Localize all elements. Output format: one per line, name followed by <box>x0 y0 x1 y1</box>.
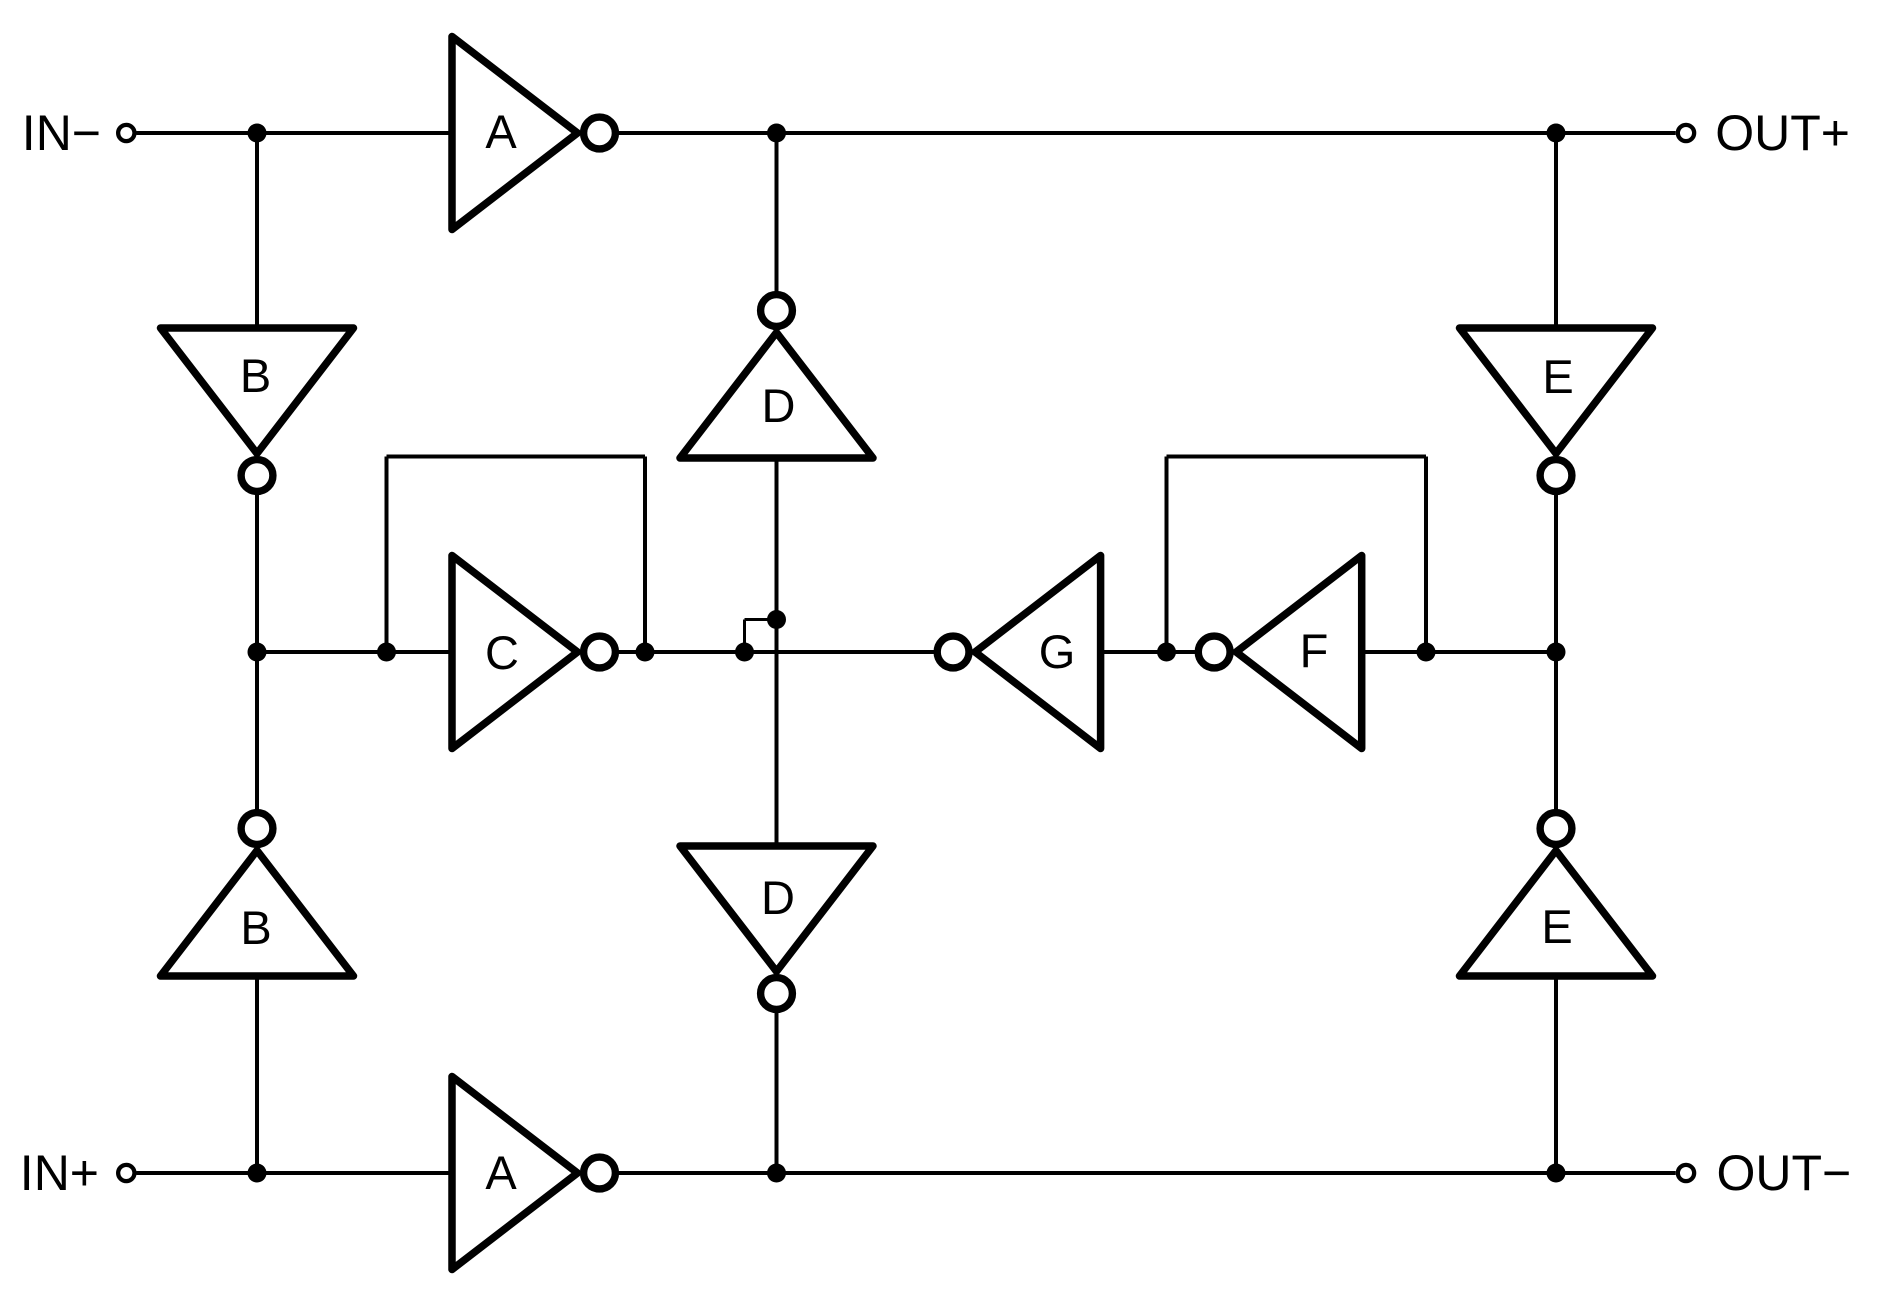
wire F feedback top horizontal <box>1167 455 1427 459</box>
wire C feedback top horizontal <box>387 455 646 459</box>
junction top net / right rail <box>1547 124 1566 143</box>
wire middle net C output to G bubble <box>618 650 938 654</box>
inverter B1 (upper left) bubble <box>241 460 273 492</box>
wire middle net left rail to C input <box>257 650 452 654</box>
svg-text:G: G <box>1039 625 1076 678</box>
junction bottom net / right rail <box>1547 1164 1566 1183</box>
inverter A1 (top) bubble <box>584 117 616 149</box>
inverter D1 (upper middle) bubble <box>761 295 793 327</box>
wire jog vertical from middle net <box>743 620 746 653</box>
wire bottom net A output to OUT- <box>618 1171 1676 1175</box>
inverter A2 (bottom) triangle <box>452 1077 578 1270</box>
svg-text:OUT+: OUT+ <box>1715 105 1850 161</box>
inverter G bubble <box>937 636 969 668</box>
wire middle net F output to right rail <box>1362 650 1556 654</box>
terminal IN+ <box>118 1165 134 1181</box>
svg-text:E: E <box>1541 900 1572 953</box>
svg-text:IN−: IN− <box>22 105 101 161</box>
wire left rail lower B output to bottom net <box>255 974 259 1173</box>
wire jog horizontal to middle rail <box>745 618 777 621</box>
inverter F bubble <box>1198 636 1230 668</box>
inverter E1 (upper right) bubble <box>1540 460 1572 492</box>
junction middle net / left rail <box>248 643 267 662</box>
junction bottom net / middle rail <box>767 1164 786 1183</box>
wire C feedback right vertical <box>643 457 647 653</box>
junction jog on middle net <box>735 643 754 662</box>
junction F feedback input <box>1157 643 1176 662</box>
inverter B1 (upper left) triangle <box>161 328 354 454</box>
wire F feedback right vertical <box>1424 457 1428 653</box>
inverter A2 (bottom) bubble <box>584 1157 616 1189</box>
wire F feedback left vertical <box>1165 457 1169 653</box>
inverter D2 (lower middle) triangle <box>680 846 873 972</box>
wire left rail B output to middle net <box>255 493 259 652</box>
wire top net IN- to A input <box>137 131 453 135</box>
wire middle rail top net to D bubble <box>775 133 779 292</box>
junction top net / left rail <box>248 124 267 143</box>
svg-text:A: A <box>485 1146 517 1199</box>
junction C feedback output <box>636 643 655 662</box>
junction middle net / right rail <box>1547 643 1566 662</box>
wire bottom net IN+ to A input <box>137 1171 453 1175</box>
svg-text:B: B <box>240 901 271 954</box>
svg-text:D: D <box>761 871 795 924</box>
inverter E2 (lower right) bubble <box>1540 813 1572 845</box>
wire right rail top segment <box>1554 133 1558 330</box>
wire top net A output to OUT+ <box>618 131 1676 135</box>
junction top net / middle rail <box>767 124 786 143</box>
terminal OUT- <box>1678 1165 1694 1181</box>
terminal OUT+ <box>1678 125 1694 141</box>
junction F feedback output <box>1417 643 1436 662</box>
svg-text:IN+: IN+ <box>20 1145 99 1201</box>
wire middle rail D input down to lower D <box>775 456 779 848</box>
svg-text:C: C <box>485 626 519 679</box>
junction bottom net / left rail <box>248 1164 267 1183</box>
wire left rail top segment <box>255 133 259 330</box>
svg-text:A: A <box>485 105 517 158</box>
svg-text:E: E <box>1542 350 1573 403</box>
inverter D2 (lower middle) bubble <box>761 978 793 1010</box>
svg-text:F: F <box>1300 624 1329 677</box>
inverter D1 (upper middle) triangle <box>680 333 873 459</box>
junction C feedback input <box>377 643 396 662</box>
inverter C bubble <box>584 636 616 668</box>
inverter E2 (lower right) triangle <box>1460 851 1653 977</box>
inverter F triangle <box>1236 556 1362 749</box>
terminal IN- <box>118 125 134 141</box>
wire middle rail lower D bubble to bottom net <box>775 1013 779 1173</box>
inverter A1 (top) triangle <box>452 37 578 230</box>
svg-text:OUT−: OUT− <box>1717 1145 1852 1201</box>
svg-text:D: D <box>762 379 796 432</box>
inverter G triangle <box>975 556 1101 749</box>
wire left rail middle net to lower B bubble <box>255 652 259 811</box>
wire C feedback left vertical <box>385 457 389 653</box>
inverter C triangle <box>452 556 578 749</box>
inverter E1 (upper right) triangle <box>1460 328 1653 454</box>
wire right rail E output to middle net <box>1554 493 1558 652</box>
wire right rail middle net to lower E bubble <box>1554 652 1558 811</box>
inverter B2 (lower left) triangle <box>161 851 354 977</box>
wire middle net G output to F bubble <box>1101 650 1196 654</box>
inverter B2 (lower left) bubble <box>241 813 273 845</box>
svg-text:B: B <box>240 349 271 402</box>
junction jog on middle rail <box>767 610 786 629</box>
wire right rail lower E output to bottom net <box>1554 974 1558 1173</box>
